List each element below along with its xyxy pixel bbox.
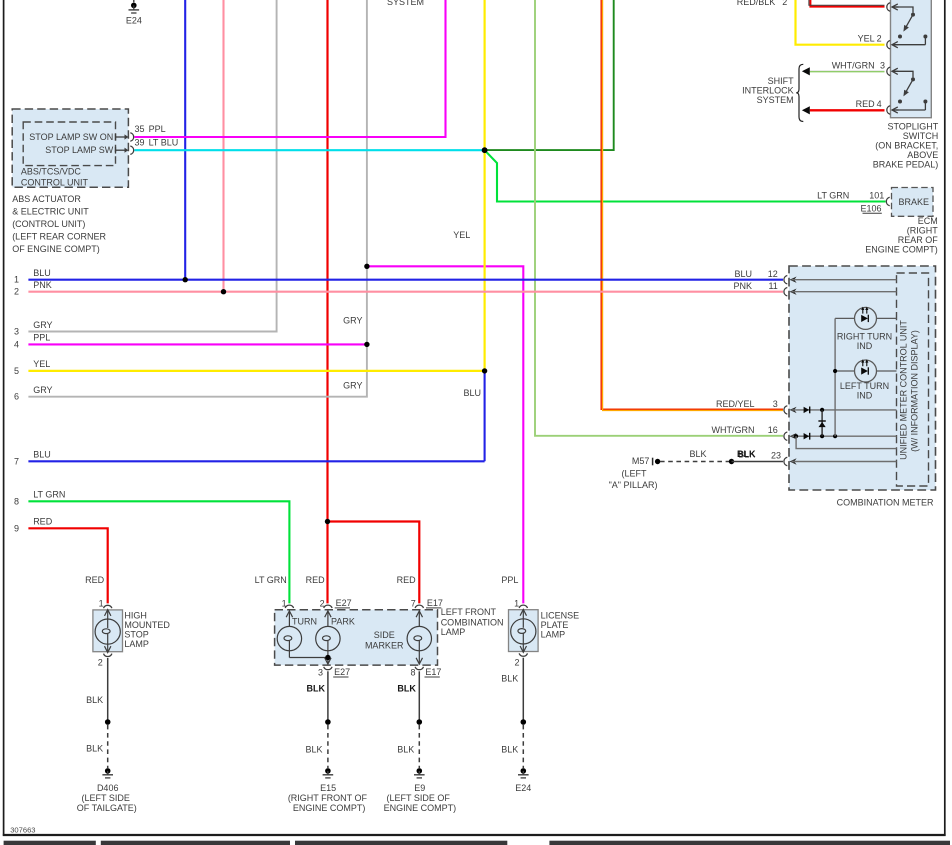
svg-text:GRY: GRY (343, 380, 362, 390)
svg-text:UNIFIED METER CONTROL UNIT: UNIFIED METER CONTROL UNIT (899, 320, 909, 460)
svg-text:SYSTEM: SYSTEM (757, 95, 794, 105)
M57 connector and BLK wire to meter pin 23 (609, 449, 783, 490)
svg-text:ECM: ECM (918, 216, 938, 226)
wire PPL vertical from top to ABS pin 35 (134, 0, 445, 137)
wire PNK vertical from top (222, 0, 224, 292)
svg-text:TURN: TURN (292, 617, 317, 627)
svg-text:E9: E9 (414, 783, 425, 793)
svg-text:BLU: BLU (33, 450, 51, 460)
ground E24 (bottom) (521, 768, 527, 774)
unified meter control unit vertical text (899, 320, 920, 460)
wire LT BLU (cyan) from ABS pin 39 (134, 149, 484, 151)
wire RED to shift interlock (810, 109, 885, 111)
wire row 7 BLU (28, 460, 484, 462)
pin 8 arc (415, 667, 423, 670)
wire row 8 LT GRN to TURN lamp pin 1 (28, 501, 289, 603)
shift interlock brace (796, 64, 803, 121)
svg-text:YEL: YEL (453, 230, 470, 240)
svg-text:D406: D406 (97, 783, 119, 793)
svg-text:COMBINATION METER: COMBINATION METER (837, 497, 934, 507)
wire row 2 PNK to combination meter pin 11 (28, 291, 783, 293)
svg-text:BLK: BLK (305, 744, 322, 754)
wire GRY vertical from top to row 6 (28, 0, 367, 397)
wire row 5 YEL (28, 370, 484, 372)
svg-text:RED: RED (85, 575, 105, 585)
svg-text:PPL: PPL (501, 575, 518, 585)
wire RED/BLK from top to stoplight switch pin (810, 0, 884, 7)
svg-text:HIGH: HIGH (124, 611, 146, 621)
svg-text:101: 101 (869, 191, 884, 201)
turn indicator labels (837, 332, 892, 401)
svg-text:GRY: GRY (33, 320, 52, 330)
svg-text:STOPLIGHT: STOPLIGHT (887, 121, 938, 131)
svg-text:WHT/GRN: WHT/GRN (712, 425, 755, 435)
BLK wires below combo lamp (327, 671, 329, 722)
svg-text:2: 2 (782, 0, 787, 7)
diode on pin 3 line (804, 407, 810, 413)
svg-text:307663: 307663 (10, 825, 35, 834)
svg-text:2: 2 (14, 287, 19, 297)
svg-text:OF TAILGATE): OF TAILGATE) (77, 803, 137, 813)
wire row 1 BLU to combination meter pin 12 (28, 279, 783, 281)
svg-text:PLATE: PLATE (541, 620, 569, 630)
svg-text:8: 8 (14, 496, 19, 506)
svg-text:1: 1 (514, 598, 519, 608)
wire BLU segment joining row 5 junction to row 7 (484, 371, 486, 461)
svg-text:23: 23 (771, 451, 781, 461)
svg-text:ENGINE COMPT): ENGINE COMPT) (865, 245, 938, 255)
high mounted stop lamp (77, 598, 171, 813)
ABS pin 35 connector (116, 133, 134, 141)
junction row1/blue vertical (183, 277, 188, 282)
svg-text:BLK: BLK (397, 744, 414, 754)
pin 1 arc (TURN) (285, 605, 293, 608)
stoplight switch pin 2 (YEL) (887, 41, 899, 49)
svg-text:YEL: YEL (858, 34, 875, 44)
svg-text:1: 1 (14, 275, 19, 285)
svg-text:IND: IND (857, 391, 873, 401)
svg-text:BLU: BLU (734, 269, 752, 279)
svg-text:WHT/GRN: WHT/GRN (832, 60, 875, 70)
svg-text:3: 3 (318, 667, 323, 677)
svg-text:BLU: BLU (33, 268, 51, 278)
svg-text:2: 2 (514, 657, 519, 667)
svg-text:(ON BRACKET,: (ON BRACKET, (875, 140, 938, 150)
svg-text:(W/ INFORMATION DISPLAY): (W/ INFORMATION DISPLAY) (910, 330, 920, 452)
svg-text:LAMP: LAMP (541, 630, 566, 640)
svg-text:LAMP: LAMP (441, 627, 466, 637)
svg-text:BLK: BLK (86, 744, 103, 754)
stoplight switch box (737, 0, 939, 169)
svg-text:PARK: PARK (331, 617, 355, 627)
svg-text:LT GRN: LT GRN (817, 191, 849, 201)
ABS texts (12, 124, 178, 254)
wire DK GRN from junction to top (485, 0, 614, 150)
bulb (95, 610, 120, 653)
svg-text:5: 5 (14, 366, 19, 376)
svg-text:11: 11 (768, 281, 777, 291)
svg-text:GRY: GRY (343, 315, 362, 325)
wire row 9 RED to high mounted stop lamp pin 1 (28, 528, 107, 603)
svg-text:RIGHT TURN: RIGHT TURN (837, 332, 892, 342)
wire LT GRN from junction to ECM BRAKE pin (485, 150, 886, 201)
svg-text:4: 4 (877, 99, 882, 109)
svg-text:STOP: STOP (124, 630, 148, 640)
svg-text:3: 3 (14, 327, 19, 337)
bottom table bars (4, 841, 950, 845)
svg-text:LICENSE: LICENSE (541, 611, 580, 621)
junction cyan/green (482, 147, 488, 153)
svg-text:1: 1 (99, 598, 104, 608)
junction row4/gray vertical (364, 342, 369, 347)
svg-text:LEFT TURN: LEFT TURN (840, 381, 889, 391)
svg-text:(LEFT: (LEFT (621, 469, 647, 479)
svg-text:BLK: BLK (501, 673, 518, 683)
svg-text:E24: E24 (126, 15, 142, 25)
stoplight switch section 1 contacts (893, 13, 928, 45)
ABS inner box STOP LAMP SW unit (23, 122, 115, 166)
svg-text:BLK: BLK (307, 684, 326, 694)
svg-text:& ELECTRIC UNIT: & ELECTRIC UNIT (12, 207, 89, 217)
wire BLU vertical from top (184, 0, 186, 280)
license plate lamp (501, 598, 579, 793)
svg-text:RED/BLK: RED/BLK (737, 0, 776, 7)
ground E24 (top, behind combination lamp circuit) (126, 0, 142, 25)
wire RED/YEL vertical from top to meter pin 3 (601, 0, 783, 409)
svg-text:ENGINE COMPT): ENGINE COMPT) (384, 803, 457, 813)
vertical link between LED lines and pin16 line (834, 318, 836, 436)
svg-text:BLK: BLK (86, 695, 103, 705)
ECM pin 101 connector (886, 197, 889, 205)
ECM caption (865, 216, 938, 255)
combination meter outer box (712, 266, 936, 507)
svg-text:RED/YEL: RED/YEL (716, 399, 755, 409)
svg-text:COMBINATION: COMBINATION (441, 617, 504, 627)
svg-text:PNK: PNK (733, 281, 752, 291)
ground E9 (417, 768, 423, 774)
pin 3 arc (324, 667, 332, 670)
svg-text:(CONTROL UNIT): (CONTROL UNIT) (12, 219, 85, 229)
svg-text:SWITCH: SWITCH (903, 131, 939, 141)
meter pin 3 connector RED/YEL (784, 406, 787, 414)
svg-text:BLK: BLK (689, 449, 706, 459)
stoplight switch pin labels (737, 0, 885, 109)
svg-text:LEFT FRONT: LEFT FRONT (441, 607, 497, 617)
svg-text:(LEFT REAR CORNER: (LEFT REAR CORNER (12, 232, 106, 242)
svg-text:4: 4 (14, 339, 19, 349)
junction PPL/GRY upper (364, 264, 369, 269)
left turn indicator LED (835, 360, 896, 382)
svg-text:BLK: BLK (501, 744, 518, 754)
svg-text:ENGINE COMPT): ENGINE COMPT) (293, 803, 366, 813)
caption (124, 611, 170, 650)
svg-text:RED: RED (33, 517, 53, 527)
pin 2 arc (PARK) (324, 605, 332, 608)
svg-text:35: 35 (135, 124, 145, 134)
stoplight switch caption (873, 121, 939, 169)
wire YEL vertical from top to row 5 junction (484, 0, 486, 371)
ABS actuator control unit outer box (12, 109, 178, 254)
svg-text:9: 9 (14, 523, 19, 533)
svg-text:SIDE: SIDE (374, 630, 395, 640)
svg-text:LT BLU: LT BLU (149, 137, 179, 147)
svg-text:GRY: GRY (33, 385, 52, 395)
svg-text:E17: E17 (425, 667, 441, 677)
junction row5/yellow vertical (482, 368, 487, 373)
wire YEL from top to stoplight switch pin 2 (796, 0, 885, 45)
meter pin 16 connector WHT/GRN (784, 432, 787, 440)
svg-text:ABS ACTUATOR: ABS ACTUATOR (12, 194, 81, 204)
svg-text:BRAKE PEDAL): BRAKE PEDAL) (873, 159, 939, 169)
svg-text:12: 12 (768, 269, 778, 279)
svg-text:7: 7 (411, 598, 416, 608)
svg-text:M57: M57 (632, 456, 650, 466)
svg-text:ABS/TCS/VDC: ABS/TCS/VDC (21, 167, 82, 177)
svg-text:2: 2 (877, 34, 882, 44)
vertical diode between pin3 and pin16 lines (821, 410, 823, 436)
TURN bulb (277, 611, 328, 658)
svg-text:RED: RED (306, 575, 326, 585)
wire RED vertical from top to PARK lamp pin 2 (326, 0, 328, 603)
wire GRY vertical from top to row 3 (28, 0, 276, 332)
svg-text:BRAKE: BRAKE (899, 197, 930, 207)
stoplight switch pin 1 (RED/BLK) (887, 3, 913, 13)
svg-text:MARKER: MARKER (365, 640, 404, 650)
diode on pin 16 line (804, 433, 810, 439)
stoplight switch pin 3 (WHT/GRN) (887, 67, 913, 77)
unified meter control unit inner box (897, 273, 929, 486)
svg-text:LAMP: LAMP (124, 639, 149, 649)
ABS pin 39 connector (116, 146, 134, 154)
stoplight switch pin 4 (RED) (887, 106, 899, 114)
svg-text:BLU: BLU (463, 388, 481, 398)
svg-text:SYSTEM: SYSTEM (387, 0, 424, 7)
wire PPL branch to LICENSE PLATE LAMP (367, 266, 523, 603)
svg-text:8: 8 (410, 667, 415, 677)
svg-text:YEL: YEL (33, 359, 50, 369)
pin 1 arc (104, 605, 112, 608)
svg-text:STOP LAMP SW: STOP LAMP SW (45, 145, 114, 155)
stoplight switch section 2 contacts (893, 77, 928, 110)
svg-text:E24: E24 (515, 783, 531, 793)
svg-text:1: 1 (282, 598, 287, 608)
svg-text:2: 2 (320, 598, 325, 608)
svg-text:IND: IND (857, 341, 873, 351)
shift interlock system off-page arrows (742, 64, 884, 121)
left front combination lamp box (275, 598, 504, 813)
svg-text:3: 3 (880, 60, 885, 70)
meter pin 23 connector BLK (784, 457, 787, 465)
wire WHT/GRN vertical from top to meter pin 16 (535, 0, 783, 436)
svg-text:STOP LAMP SW ON: STOP LAMP SW ON (29, 132, 113, 142)
svg-text:"A" PILLAR): "A" PILLAR) (609, 480, 658, 490)
svg-text:ABOVE: ABOVE (907, 150, 938, 160)
svg-text:BLK: BLK (397, 684, 416, 694)
BLK wire below (107, 658, 109, 722)
svg-text:(RIGHT: (RIGHT (907, 226, 938, 236)
shift interlock caption (742, 76, 794, 105)
meter pin 12 connector (784, 276, 787, 284)
svg-text:E27: E27 (334, 667, 350, 677)
loop from pin16 junction to control unit (796, 436, 896, 448)
junction red branch (325, 519, 330, 524)
svg-text:E15: E15 (320, 783, 336, 793)
meter pin labels (712, 269, 782, 460)
svg-text:CONTROL UNIT: CONTROL UNIT (21, 177, 89, 187)
svg-text:PNK: PNK (33, 280, 52, 290)
svg-text:(LEFT SIDE OF: (LEFT SIDE OF (387, 793, 451, 803)
svg-text:LT GRN: LT GRN (33, 490, 65, 500)
svg-text:LT GRN: LT GRN (255, 575, 287, 585)
wire row 4 PPL (28, 343, 367, 345)
svg-text:E106: E106 (860, 203, 881, 213)
svg-text:39: 39 (135, 137, 145, 147)
meter pin 11 connector (784, 288, 787, 296)
svg-text:(RIGHT FRONT OF: (RIGHT FRONT OF (288, 793, 368, 803)
svg-text:(LEFT SIDE: (LEFT SIDE (82, 793, 130, 803)
wire RED branch to SIDE MARKER pin 7 (328, 522, 420, 604)
pin 2 arc (104, 654, 112, 657)
svg-text:16: 16 (768, 425, 778, 435)
svg-text:7: 7 (14, 456, 19, 466)
svg-text:3: 3 (773, 399, 778, 409)
svg-text:RED: RED (856, 99, 876, 109)
PARK bulb (316, 611, 340, 664)
SIDE MARKER bulb (407, 611, 431, 664)
wire WHT/GRN to shift interlock (810, 70, 885, 72)
svg-text:2: 2 (98, 658, 103, 668)
svg-text:MOUNTED: MOUNTED (124, 620, 170, 630)
ground E15 (325, 768, 331, 774)
ECM BRAKE box (817, 188, 938, 255)
svg-text:PPL: PPL (33, 333, 50, 343)
svg-text:BLK: BLK (737, 449, 756, 459)
svg-text:RED: RED (397, 575, 417, 585)
pin 7 arc (SIDE MARKER) (415, 605, 423, 608)
ground D406 (105, 768, 111, 774)
junction row2/pink vertical (221, 289, 226, 294)
svg-text:REAR OF: REAR OF (898, 235, 939, 245)
svg-text:PPL: PPL (149, 124, 166, 134)
svg-text:OF ENGINE COMPT): OF ENGINE COMPT) (12, 244, 100, 254)
right turn indicator LED (835, 307, 896, 329)
svg-text:6: 6 (14, 392, 19, 402)
svg-text:E27: E27 (336, 598, 352, 608)
